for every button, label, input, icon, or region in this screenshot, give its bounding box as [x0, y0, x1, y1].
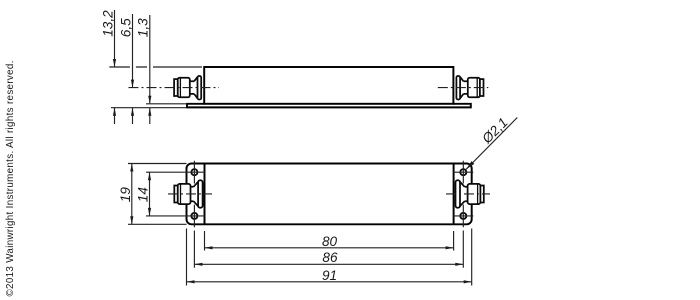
extension lines for 14 dimension	[146, 172, 184, 216]
leader line for hole diameter	[466, 118, 518, 170]
svg-text:19: 19	[118, 187, 133, 203]
connector J1 (side view, left)	[174, 76, 201, 100]
body edge lines (plan view)	[205, 164, 454, 225]
connector J2 (plan view, right, mirrored)	[455, 180, 483, 207]
dimension 13,2	[113, 10, 116, 124]
extension line: plate top, 1.3 level (side view)	[146, 103, 187, 105]
dimension 91	[187, 280, 472, 283]
label diameter 2,1	[479, 115, 511, 147]
svg-text:©2013 Wainwright Instruments.: ©2013 Wainwright Instruments. All rights…	[5, 60, 16, 296]
dimension 19	[130, 164, 133, 225]
extension line: body top (side view)	[109, 66, 202, 68]
svg-text:13,2: 13,2	[101, 10, 116, 37]
body outline (side view)	[204, 67, 453, 104]
svg-text:80: 80	[322, 234, 338, 249]
label 6,5	[118, 18, 133, 37]
dimension 6,5	[131, 14, 134, 124]
extension line: bottom baseline (side view)	[111, 107, 187, 109]
connector J2 (side view, right, mirrored)	[456, 76, 483, 100]
extension lines for 19 dimension	[128, 164, 187, 225]
mounting hole bottom-right	[453, 205, 474, 228]
label 91	[322, 268, 337, 283]
base plate (side view)	[187, 104, 471, 108]
label 13,2	[101, 10, 116, 37]
svg-text:91: 91	[322, 268, 337, 283]
label 1,3	[136, 18, 151, 37]
dimension 14	[148, 172, 151, 216]
flange plate outline (plan view)	[187, 164, 472, 225]
connector J1 (plan view, left)	[174, 180, 202, 207]
dimension 1,3	[148, 15, 151, 124]
mounting hole bottom-left	[184, 205, 205, 228]
svg-text:6,5: 6,5	[118, 18, 133, 37]
label 19	[118, 187, 133, 203]
centerline of connector J2 (side view)	[438, 87, 489, 89]
copyright sidebar text	[5, 60, 16, 296]
dimension 86	[194, 263, 463, 266]
centerline of connector J1 (plan view)	[168, 193, 212, 195]
svg-text:1,3: 1,3	[136, 18, 151, 37]
extension lines below plan view	[187, 229, 472, 286]
mounting hole top-left	[184, 161, 205, 184]
label 80	[322, 234, 338, 249]
centerline of connector J1 (side view)	[129, 87, 220, 89]
centerline of connector J2 (plan view)	[446, 193, 490, 195]
mounting hole top-right	[453, 161, 474, 184]
svg-text:14: 14	[136, 187, 151, 203]
svg-text:86: 86	[322, 250, 338, 265]
label 14	[136, 187, 151, 203]
dimension 80	[205, 246, 454, 249]
label 86	[322, 250, 338, 265]
